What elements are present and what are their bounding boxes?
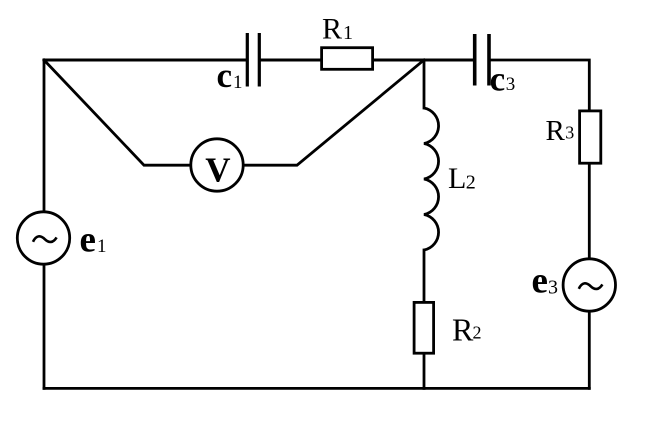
svg-text:e: e bbox=[80, 220, 96, 261]
resistor R1 bbox=[322, 48, 373, 70]
svg-text:2: 2 bbox=[473, 323, 482, 343]
svg-text:L: L bbox=[448, 162, 466, 195]
resistor R2 bbox=[414, 302, 434, 353]
voltmeter V bbox=[191, 139, 243, 191]
svg-text:3: 3 bbox=[506, 74, 516, 95]
source e1 bbox=[17, 212, 69, 264]
source e3 bbox=[563, 259, 615, 311]
svg-text:c: c bbox=[490, 60, 506, 99]
wire bottom horizontal bbox=[44, 387, 589, 390]
svg-text:c: c bbox=[217, 56, 233, 95]
wire R2 to bottom bbox=[423, 355, 426, 389]
wire R1 to node B and C3 bbox=[374, 58, 473, 61]
svg-text:1: 1 bbox=[343, 22, 353, 44]
source e1 tilde bbox=[33, 236, 57, 242]
svg-text:1: 1 bbox=[97, 236, 107, 257]
svg-text:V: V bbox=[205, 150, 230, 189]
wire L2 to R2 bbox=[423, 250, 426, 301]
wire C1 to R1 bbox=[261, 59, 320, 62]
wire R3 to e3 bbox=[588, 165, 591, 259]
svg-text:3: 3 bbox=[565, 123, 574, 143]
svg-text:1: 1 bbox=[233, 72, 243, 93]
wire top-left horizontal (node A to C1) bbox=[44, 59, 246, 62]
svg-text:2: 2 bbox=[466, 171, 476, 193]
wire left vertical (node A down to e1) bbox=[43, 60, 46, 211]
wire diagonal node A to voltmeter bbox=[44, 60, 190, 165]
source e3 tilde bbox=[579, 283, 603, 289]
svg-text:3: 3 bbox=[548, 277, 558, 299]
resistor R3 bbox=[580, 111, 601, 163]
capacitor C3 bbox=[475, 34, 489, 86]
inductor L2 bbox=[424, 108, 439, 250]
svg-text:R: R bbox=[322, 12, 342, 45]
capacitor C1 bbox=[247, 33, 259, 87]
wire voltmeter to node B diagonal bbox=[244, 60, 424, 165]
wire e1 to bottom-left corner bbox=[43, 265, 46, 388]
svg-text:R: R bbox=[452, 312, 474, 348]
svg-text:R: R bbox=[546, 115, 566, 147]
wire node B down to L2 bbox=[423, 60, 426, 108]
svg-text:e: e bbox=[532, 260, 548, 301]
wire C3 to top-right corner and down to R3 bbox=[491, 60, 589, 110]
wire e3 to bottom-right corner bbox=[588, 312, 591, 388]
